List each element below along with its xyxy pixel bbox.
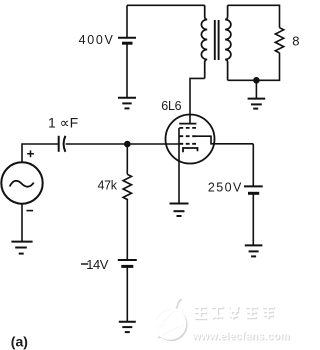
minus sign xyxy=(27,210,34,212)
svg-text:6L6: 6L6 xyxy=(161,99,181,113)
svg-text:400V: 400V xyxy=(79,33,115,47)
capacitor 1uF right plate (curved) xyxy=(64,136,66,152)
transformer T1 primary winding xyxy=(201,5,207,78)
tube plate xyxy=(179,123,196,125)
wire 47k to -14V battery xyxy=(126,199,128,260)
ground (AC source) xyxy=(11,242,32,254)
minus overlapping the 1 xyxy=(81,263,88,265)
watermark logo (embossed shadow layer) xyxy=(156,299,187,340)
wire AC bottom to ground xyxy=(21,204,23,242)
transformer core xyxy=(215,20,219,60)
watermark logo (white top layer) xyxy=(155,298,186,339)
battery -14V xyxy=(118,260,137,266)
transformer T1 secondary winding xyxy=(225,5,231,80)
node junction (secondary bottom / ground tap) xyxy=(253,77,260,84)
node junction (grid / 47k) xyxy=(124,141,131,148)
watermark chinese text (embossed shadow layer) xyxy=(195,306,275,319)
svg-text:250V: 250V xyxy=(208,180,243,194)
wire 250V battery to ground xyxy=(252,193,254,245)
AC sine wave xyxy=(10,181,34,187)
wire resistor bottom to secondary bottom xyxy=(228,53,280,81)
wire primary bottom to tube plate xyxy=(190,78,205,123)
svg-text:1 ∝F: 1 ∝F xyxy=(48,114,78,130)
tube 6L6 envelope xyxy=(166,115,215,164)
wire 400V battery feed vertical xyxy=(126,5,128,37)
ground (cathode) xyxy=(170,204,189,217)
wire -14V battery to ground xyxy=(126,266,128,321)
svg-text:47k: 47k xyxy=(98,179,118,193)
wire junction to ground xyxy=(255,80,257,98)
ground (250V) xyxy=(245,245,263,256)
resistor 47k xyxy=(123,174,131,199)
cathode / beam-plate lead down xyxy=(178,128,180,203)
resistor 8 ohm xyxy=(275,28,283,53)
svg-text:14V: 14V xyxy=(86,257,108,272)
plus sign xyxy=(27,150,34,157)
svg-text:8: 8 xyxy=(292,34,299,49)
ground (-14V) xyxy=(119,322,136,332)
screen grid lead step to right xyxy=(196,136,253,144)
wire junction down to 47k xyxy=(126,144,128,174)
watermark chinese text (white top layer) xyxy=(194,305,274,318)
battery 400V xyxy=(118,38,136,44)
battery 250V xyxy=(244,186,263,193)
tube screen grid (dashes) xyxy=(179,135,196,137)
capacitor 1uF left plate xyxy=(58,136,60,152)
tube beam grid (dashes, tied to cathode) xyxy=(179,127,196,129)
svg-text:www.elecfans.com: www.elecfans.com xyxy=(191,331,290,343)
wire top-left horizontal (400V to transformer primary) xyxy=(127,4,205,6)
wire capacitor to tube grid xyxy=(66,143,179,145)
ground (below 400V battery) xyxy=(118,98,136,109)
wire secondary top to resistor xyxy=(228,5,280,27)
tube cathode xyxy=(183,148,198,152)
tube control grid (dashes) xyxy=(179,143,196,145)
ground (secondary/speaker) xyxy=(248,99,266,109)
wire battery to ground xyxy=(126,43,128,97)
wire AC top to capacitor xyxy=(22,144,59,162)
svg-text:(a): (a) xyxy=(11,333,28,349)
AC source circle xyxy=(1,162,42,203)
wire screen to 250V battery xyxy=(252,144,254,186)
